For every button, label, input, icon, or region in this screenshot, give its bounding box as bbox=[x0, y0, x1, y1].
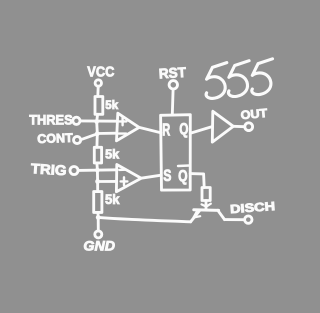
svg-text:5k: 5k bbox=[105, 100, 118, 112]
svg-text:S: S bbox=[163, 166, 171, 185]
svg-text:THRES: THRES bbox=[29, 113, 72, 128]
svg-text:OUT: OUT bbox=[240, 106, 269, 122]
svg-text:VCC: VCC bbox=[87, 64, 114, 81]
svg-text:Q: Q bbox=[179, 121, 188, 138]
svg-text:Q: Q bbox=[178, 168, 188, 185]
svg-text:5k: 5k bbox=[105, 191, 120, 207]
svg-text:R: R bbox=[162, 119, 170, 139]
svg-text:CONT: CONT bbox=[37, 131, 73, 146]
svg-text:RST: RST bbox=[158, 64, 187, 82]
svg-text:GND: GND bbox=[83, 238, 115, 254]
svg-text:5k: 5k bbox=[105, 146, 120, 161]
svg-text:TRIG: TRIG bbox=[30, 160, 67, 178]
